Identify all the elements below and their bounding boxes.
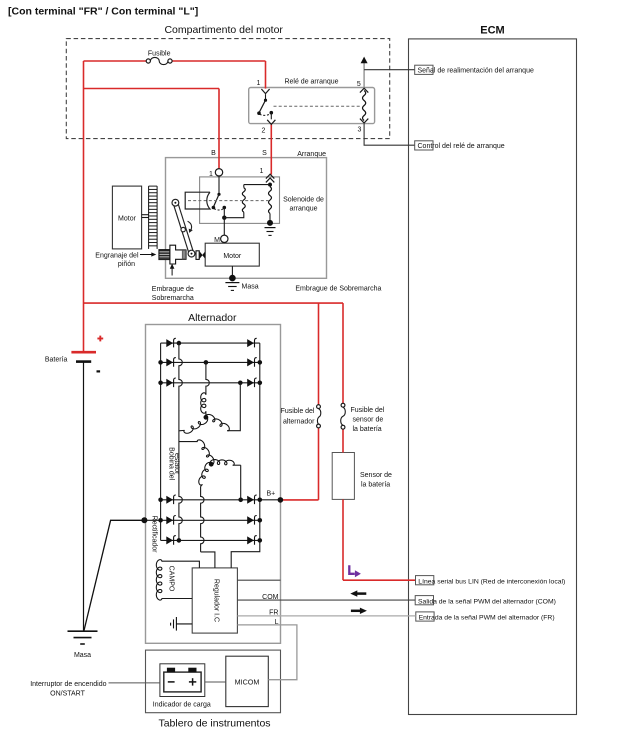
svg-text:la batería: la batería <box>353 426 382 433</box>
svg-text:sensor de: sensor de <box>353 416 384 423</box>
svg-text:Control del relé de arranque: Control del relé de arranque <box>418 143 505 150</box>
svg-text:5: 5 <box>357 81 361 88</box>
svg-text:Embrague de Sobremarcha: Embrague de Sobremarcha <box>295 286 381 293</box>
svg-text:estator: estator <box>173 453 180 475</box>
svg-text:Rectificador: Rectificador <box>151 516 158 554</box>
svg-text:Sensor de: Sensor de <box>360 472 392 479</box>
svg-text:Compartimento del motor: Compartimento del motor <box>164 24 283 36</box>
svg-text:Interruptor de encendido: Interruptor de encendido <box>30 681 106 688</box>
svg-text:alternador: alternador <box>283 419 315 426</box>
svg-text:Batería: Batería <box>45 357 68 364</box>
svg-text:FR: FR <box>269 609 278 616</box>
svg-text:Fusible del: Fusible del <box>281 408 315 415</box>
svg-text:Alternador: Alternador <box>188 312 237 324</box>
svg-text:Masa: Masa <box>74 652 91 659</box>
svg-text:Solenoide de: Solenoide de <box>283 197 324 204</box>
svg-text:CAMPO: CAMPO <box>167 566 174 592</box>
svg-text:L: L <box>275 619 279 626</box>
svg-text:arranque: arranque <box>289 206 317 213</box>
svg-text:Arranque: Arranque <box>297 151 326 158</box>
svg-text:COM: COM <box>262 594 279 601</box>
svg-text:Embrague de: Embrague de <box>152 286 194 293</box>
svg-text:Tablero de instrumentos: Tablero de instrumentos <box>158 718 270 730</box>
svg-text:Engranaje del: Engranaje del <box>95 253 139 260</box>
svg-text:Salida de la señal PWM del alt: Salida de la señal PWM del alternador (C… <box>418 599 556 606</box>
svg-text:Fusible: Fusible <box>148 51 171 58</box>
svg-text:Señal de realimentación del ar: Señal de realimentación del arranque <box>418 67 534 74</box>
svg-text:la batería: la batería <box>361 482 390 489</box>
svg-text:1: 1 <box>257 80 261 87</box>
svg-text:ON/START: ON/START <box>50 691 85 698</box>
svg-text:B: B <box>211 150 216 157</box>
svg-text:Sobremarcha: Sobremarcha <box>152 295 194 302</box>
svg-text:piñón: piñón <box>118 261 135 268</box>
svg-text:Entrada de la señal PWM del al: Entrada de la señal PWM del alternador (… <box>419 614 555 621</box>
svg-text:2: 2 <box>262 128 266 135</box>
svg-text:Relé de arranque: Relé de arranque <box>284 79 338 86</box>
svg-text:Regulador I.C: Regulador I.C <box>212 579 219 622</box>
svg-text:Motor: Motor <box>223 253 242 260</box>
svg-text:B+: B+ <box>267 491 276 498</box>
svg-text:1: 1 <box>260 168 264 175</box>
svg-text:MICOM: MICOM <box>235 677 260 686</box>
svg-text:Masa: Masa <box>242 283 259 290</box>
svg-text:ECM: ECM <box>480 25 504 37</box>
svg-text:Línea serial bus LIN (Red de i: Línea serial bus LIN (Red de interconexi… <box>418 578 565 585</box>
svg-text:Motor: Motor <box>118 216 137 223</box>
svg-text:Indicador de carga: Indicador de carga <box>153 701 211 708</box>
svg-text:Fusible del: Fusible del <box>351 407 385 414</box>
svg-text:[Con terminal "FR" / Con termi: [Con terminal "FR" / Con terminal "L"] <box>8 6 198 18</box>
svg-text:1: 1 <box>209 171 213 178</box>
svg-text:S: S <box>262 150 267 157</box>
svg-text:M: M <box>214 237 220 244</box>
svg-text:3: 3 <box>358 126 362 133</box>
